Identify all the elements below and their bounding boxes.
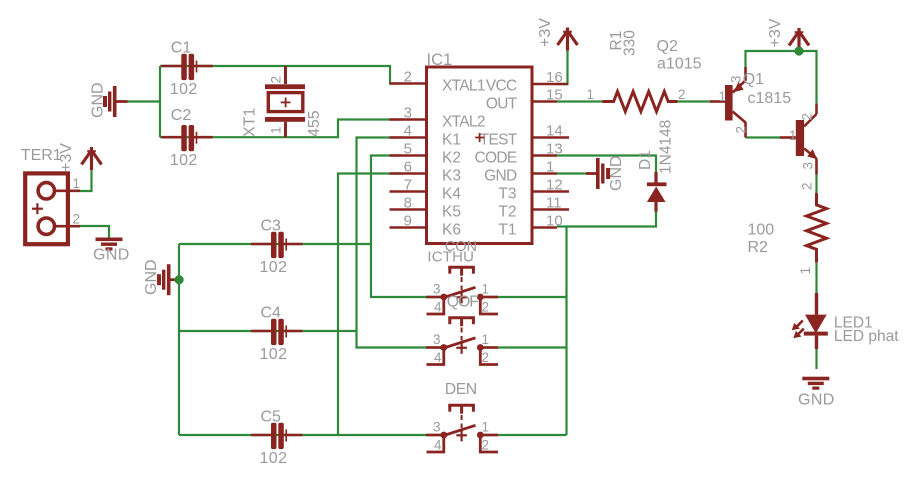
- svg-text:GND: GND: [93, 247, 130, 264]
- svg-text:4: 4: [404, 123, 412, 140]
- svg-text:330: 330: [622, 30, 639, 56]
- svg-text:3: 3: [729, 75, 744, 83]
- wire left vertical C1-C2: [159, 66, 161, 137]
- resistor R2: [748, 182, 827, 274]
- supply +3V at TER1: [58, 143, 102, 172]
- wire IC pin 6 down to C5 row (K3 net): [338, 174, 402, 436]
- svg-text:TEST: TEST: [480, 132, 518, 149]
- wire C3 row: [179, 243, 371, 245]
- IC1 pin numbers right: [546, 69, 563, 230]
- svg-text:1: 1: [798, 267, 813, 275]
- wire pin16 to +3V arrow: [557, 51, 568, 85]
- svg-text:+3V: +3V: [537, 18, 554, 47]
- svg-text:10: 10: [546, 213, 563, 230]
- svg-text:6: 6: [404, 159, 412, 176]
- svg-text:1: 1: [73, 176, 81, 191]
- resistor R1: [586, 30, 685, 112]
- svg-text:11: 11: [546, 195, 562, 212]
- capacitor C5: [251, 409, 303, 468]
- wire C2/XT1 row to IC pin 3: [160, 120, 402, 138]
- wire pin13 to D1 cathode: [557, 156, 656, 173]
- ground at C3 junction: [143, 259, 184, 295]
- svg-text:QOF: QOF: [447, 293, 480, 310]
- svg-text:4: 4: [434, 350, 442, 365]
- svg-text:1: 1: [482, 282, 490, 297]
- svg-text:GND: GND: [484, 168, 517, 185]
- svg-text:K1: K1: [442, 132, 461, 149]
- wire IC pin 4 to switch 2 (K1 net): [357, 138, 443, 348]
- capacitor C4: [251, 305, 303, 364]
- svg-text:T1: T1: [498, 222, 516, 239]
- svg-text:8: 8: [404, 195, 412, 212]
- svg-text:+3V: +3V: [767, 18, 784, 47]
- svg-text:2: 2: [482, 438, 490, 453]
- svg-text:K5: K5: [442, 204, 461, 221]
- svg-text:102: 102: [170, 152, 198, 169]
- wire pin15 OUT to R1: [557, 100, 604, 102]
- LED LED1: [792, 293, 900, 349]
- svg-text:c1815: c1815: [748, 90, 792, 107]
- svg-text:102: 102: [260, 450, 288, 467]
- svg-text:2: 2: [678, 87, 686, 102]
- svg-text:1: 1: [482, 332, 490, 347]
- svg-text:K3: K3: [442, 168, 461, 185]
- svg-text:T2: T2: [498, 204, 516, 221]
- ground top-left at C1/C2: [90, 82, 128, 118]
- svg-text:C3: C3: [261, 218, 282, 235]
- IC1 pin numbers left: [404, 69, 412, 230]
- svg-text:3: 3: [404, 105, 412, 122]
- svg-text:C1: C1: [171, 40, 192, 57]
- svg-text:IC1: IC1: [427, 51, 453, 69]
- svg-text:3: 3: [433, 420, 441, 435]
- svg-text:1: 1: [718, 89, 726, 104]
- svg-text:1: 1: [586, 87, 594, 102]
- svg-text:3: 3: [433, 332, 441, 347]
- svg-text:2: 2: [800, 113, 815, 121]
- svg-text:2: 2: [482, 300, 490, 315]
- IC1 pin names: [442, 78, 518, 239]
- svg-text:Q1: Q1: [743, 71, 764, 88]
- svg-text:14: 14: [546, 123, 563, 140]
- diode D1 1N4148: [637, 120, 675, 212]
- svg-text:LED phat: LED phat: [834, 328, 899, 345]
- wire pin1 to GND: [557, 172, 586, 174]
- svg-text:C4: C4: [261, 305, 282, 322]
- wire TER1 pin2 to GND: [80, 226, 109, 238]
- svg-text:2: 2: [482, 350, 490, 365]
- switch S3 (DEN): [426, 405, 498, 452]
- svg-text:D1: D1: [637, 150, 654, 170]
- wire Q2 collector up to +3V rail: [746, 51, 817, 103]
- wire Q2 emitter to Q1 base: [746, 136, 781, 138]
- wire C4 row: [179, 330, 357, 332]
- svg-text:102: 102: [260, 259, 288, 276]
- svg-text:4: 4: [434, 438, 442, 453]
- svg-text:K4: K4: [442, 186, 461, 203]
- connector TER1: [21, 147, 80, 244]
- svg-text:GND: GND: [143, 259, 160, 295]
- wire IC pin 5 to switch 1 (K2 net): [371, 156, 442, 298]
- svg-text:4: 4: [434, 300, 442, 315]
- wire R1 to Q2 base: [676, 100, 710, 102]
- wire Q1 emitter to R2: [815, 174, 817, 193]
- svg-text:102: 102: [170, 81, 198, 98]
- svg-text:ICTHU: ICTHU: [427, 249, 474, 266]
- svg-text:K6: K6: [442, 222, 461, 239]
- svg-text:GND: GND: [608, 155, 625, 191]
- svg-text:OUT: OUT: [486, 96, 518, 113]
- svg-text:CODE: CODE: [475, 150, 517, 167]
- transistor Q2: [657, 38, 749, 138]
- svg-text:3: 3: [433, 282, 441, 297]
- svg-text:1: 1: [482, 420, 490, 435]
- switch S2: [426, 318, 498, 365]
- svg-text:VCC: VCC: [486, 78, 517, 95]
- resonator XT1: [242, 66, 324, 137]
- wire left vertical C3-C5: [178, 244, 180, 435]
- svg-text:7: 7: [404, 177, 412, 194]
- wire GND stub top-left: [128, 100, 161, 102]
- wire right common vertical to pin 10: [565, 227, 567, 436]
- wire switch2 right: [480, 346, 567, 348]
- svg-text:2: 2: [733, 126, 748, 134]
- svg-text:GND: GND: [798, 392, 835, 409]
- capacitor C2: [161, 107, 213, 169]
- svg-text:2: 2: [73, 212, 81, 227]
- svg-text:2: 2: [269, 76, 284, 84]
- wire C5/switch3 row: [179, 434, 442, 436]
- wire pin10 stub: [557, 225, 567, 227]
- wire pin10 row to D1 anode: [567, 211, 657, 227]
- svg-text:2: 2: [800, 182, 815, 190]
- svg-text:C5: C5: [261, 409, 282, 426]
- wire switch3 right: [480, 434, 567, 436]
- svg-text:XTAL1: XTAL1: [442, 78, 485, 95]
- svg-text:TER1: TER1: [21, 147, 62, 164]
- svg-text:XT1: XT1: [242, 108, 259, 137]
- svg-text:1: 1: [789, 128, 797, 143]
- svg-text:16: 16: [546, 69, 563, 86]
- svg-text:2: 2: [404, 69, 412, 86]
- svg-text:K2: K2: [442, 150, 461, 167]
- ground at TER1 pin 2: [93, 238, 130, 264]
- switch S1 (QOF): [426, 267, 498, 314]
- svg-text:DEN: DEN: [445, 381, 477, 398]
- svg-text:1N4148: 1N4148: [658, 120, 675, 174]
- svg-text:GND: GND: [90, 82, 107, 118]
- svg-text:100: 100: [748, 222, 775, 239]
- ground at IC pin 1: [586, 155, 625, 191]
- wire LED1 to GND: [815, 349, 817, 369]
- svg-text:Q2: Q2: [657, 38, 678, 55]
- capacitor C1: [161, 40, 213, 99]
- IC1 right pins: [532, 84, 569, 228]
- IC1 origin cross near TEST: [475, 133, 484, 142]
- svg-text:12: 12: [546, 177, 563, 194]
- svg-text:XTAL2: XTAL2: [442, 114, 485, 131]
- svg-text:3: 3: [801, 162, 816, 170]
- svg-text:1: 1: [269, 126, 284, 134]
- wire C1 top net to IC pin 2: [160, 66, 402, 84]
- svg-text:13: 13: [546, 141, 563, 158]
- svg-text:T3: T3: [498, 186, 516, 203]
- svg-text:15: 15: [546, 87, 563, 104]
- svg-text:C2: C2: [171, 107, 192, 124]
- svg-text:455: 455: [306, 110, 323, 137]
- capacitor C3: [251, 218, 303, 277]
- wire R2 to LED1: [815, 263, 817, 293]
- svg-text:5: 5: [404, 141, 412, 158]
- wire switch1 right: [480, 296, 567, 298]
- svg-text:1: 1: [546, 159, 554, 176]
- supply +3V at IC pin16: [537, 18, 578, 51]
- svg-text:R2: R2: [748, 239, 769, 256]
- op-amp U1 IC1 box: [427, 51, 533, 244]
- IC1 left pins: [390, 84, 427, 228]
- wire TER1 pin1 to +3V: [80, 170, 92, 191]
- ground below LED1: [798, 377, 835, 409]
- supply +3V at Q1 collector rail: [767, 18, 809, 55]
- svg-text:9: 9: [404, 213, 412, 230]
- transistor Q1: [743, 71, 818, 175]
- svg-text:a1015: a1015: [657, 56, 702, 73]
- svg-text:102: 102: [260, 346, 288, 363]
